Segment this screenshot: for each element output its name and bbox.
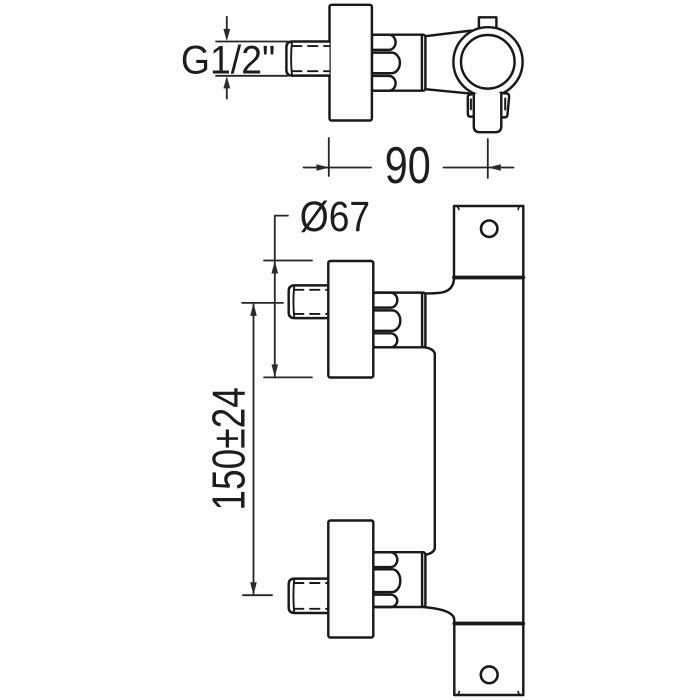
O67 tick top <box>264 260 312 262</box>
bottom plate corner notch right <box>518 692 520 696</box>
body right edge <box>522 206 524 695</box>
nut band 2 <box>372 53 400 74</box>
bottom plate thick separation line <box>454 622 523 626</box>
top plate corner notch left <box>458 206 460 210</box>
taper top <box>425 31 471 37</box>
escutcheon flange <box>328 261 373 378</box>
body left edge with fillets <box>423 347 435 555</box>
G1/2 extension line bottom <box>216 75 288 77</box>
threaded nipple <box>286 42 329 76</box>
nut+adapter silhouette <box>372 35 426 91</box>
nut band 2 <box>373 310 400 330</box>
nut band 1 <box>373 293 397 308</box>
O67 leader <box>275 216 288 378</box>
150 tick top <box>242 302 283 304</box>
escutcheon flange <box>330 5 372 121</box>
outlet <box>474 93 502 132</box>
O67 arrow down <box>272 364 279 377</box>
left bracket <box>468 94 475 117</box>
escutcheon flange <box>328 521 373 638</box>
adapter inner edge <box>421 293 423 346</box>
top plate thick separation line <box>454 276 523 280</box>
valve head inner circle <box>461 35 515 89</box>
O67 tick bottom <box>264 376 312 378</box>
O67 arrow up <box>272 261 279 274</box>
90 extension line left <box>328 138 330 176</box>
90 dim line left <box>304 167 372 169</box>
nut band 3 <box>373 595 397 607</box>
side view assembly <box>286 5 522 132</box>
svg-text:G1/2": G1/2" <box>181 39 275 83</box>
150 arrow down <box>250 582 257 595</box>
thread dashed line top <box>294 582 329 584</box>
thread dashed line bottom <box>294 313 329 315</box>
top wall plate <box>454 206 523 278</box>
150 dim line <box>253 303 255 595</box>
90 dim line right <box>444 167 514 169</box>
G1/2 extension line top <box>216 41 288 43</box>
body shoulder curve below top plate <box>423 278 454 294</box>
right bracket <box>500 93 509 118</box>
150 tick bottom <box>243 594 272 596</box>
nut band 3 <box>373 333 397 347</box>
adapter inner edge <box>421 36 423 91</box>
body lower curve to bottom plate <box>423 607 454 695</box>
nut band 1 <box>372 35 396 50</box>
thread dashed line top <box>292 45 329 47</box>
bottom plate corner notch left <box>458 692 460 696</box>
threaded nipple <box>289 579 330 613</box>
valve head outer circle <box>453 27 522 96</box>
150 arrow up <box>250 303 257 316</box>
threaded nipple <box>289 285 330 318</box>
top tab <box>479 17 497 31</box>
adapter inner edge <box>421 553 423 606</box>
thread dashed line bottom <box>294 608 329 610</box>
svg-text:Ø67: Ø67 <box>300 193 370 240</box>
nut band 2 <box>373 569 400 592</box>
nut+adapter silhouette <box>373 552 425 607</box>
thread dashed line top <box>294 289 329 291</box>
top plate hole <box>481 221 497 237</box>
svg-text:150±24: 150±24 <box>202 387 254 511</box>
90 extension line right <box>487 139 489 178</box>
top plate corner notch right <box>518 206 520 210</box>
bottom plate hole <box>481 666 498 683</box>
thread dashed line bottom <box>292 70 329 72</box>
nut+adapter silhouette <box>373 293 425 348</box>
svg-text:90: 90 <box>385 137 431 195</box>
G1/2 arrow bottom <box>226 88 228 99</box>
taper bottom <box>425 89 473 94</box>
G1/2 arrow top <box>226 17 228 30</box>
bottom plate bottom edge <box>454 694 523 696</box>
nut band 3 <box>372 76 396 91</box>
nut band 1 <box>373 552 397 567</box>
